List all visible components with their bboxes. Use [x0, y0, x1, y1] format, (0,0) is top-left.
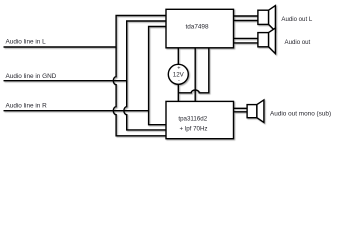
svg-text:tda7498: tda7498 [185, 24, 209, 31]
wire tda out R pair [234, 38, 258, 43]
wire tda out L pair [234, 16, 258, 21]
speaker LS3 Audio out mono sub [247, 100, 264, 123]
wire R net: tda input 3 down to tpa input [149, 27, 166, 125]
wire Audio line in GND [4, 80, 127, 82]
wire tpa out pair [234, 108, 248, 112]
wire Audio line in L [4, 46, 117, 48]
svg-text:Audio line in L: Audio line in L [6, 38, 47, 45]
wire 12V minus to tpa [177, 84, 179, 101]
wire GND net: tda input 2 down to tpa input, hops over R wire [124, 21, 166, 130]
voltage source 12V [168, 64, 188, 84]
svg-text:Audio line in R: Audio line in R [6, 103, 48, 110]
wire 12V plus to tda [177, 48, 179, 64]
svg-text:Audio line in GND: Audio line in GND [6, 73, 57, 80]
speaker LS1 Audio out L [258, 6, 276, 32]
svg-text:Audio out L: Audio out L [281, 16, 312, 23]
svg-text:tpa3116d2: tpa3116d2 [178, 116, 207, 123]
wire Audio line in R [4, 110, 149, 112]
wire L net: tda input 1 down to tpa input, hops over GND and R wires [113, 16, 166, 136]
svg-text:Audio out mono (sub): Audio out mono (sub) [270, 110, 331, 117]
svg-text:-: - [178, 78, 180, 84]
wire tda return loop, hops over rail [178, 48, 209, 93]
wire rail tda to tpa [194, 48, 196, 102]
amplifier U1 tda7498 box [166, 9, 234, 48]
speaker LS2 Audio out [258, 28, 276, 54]
svg-text:+ lpf 70Hz: + lpf 70Hz [179, 125, 207, 132]
amplifier U2 tpa3116d2 box [166, 101, 234, 138]
svg-text:+: + [177, 66, 180, 72]
svg-text:Audio out: Audio out [285, 39, 311, 46]
